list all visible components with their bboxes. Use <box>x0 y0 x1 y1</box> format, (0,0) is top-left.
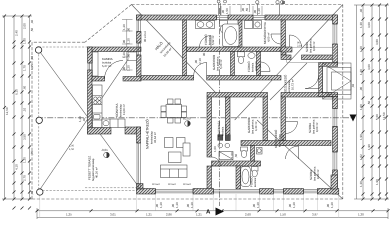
bottom dim numbers <box>66 213 364 217</box>
window halo west 2 <box>137 43 140 55</box>
node top A-line symbols <box>217 0 220 3</box>
wire north eaves <box>132 4 343 6</box>
wire NW hip diagonal <box>38 50 136 184</box>
wire right dim end bottom <box>354 198 389 200</box>
window north furdo1 <box>217 16 229 20</box>
wire NE hip diagonal <box>235 5 343 121</box>
svg-text:1,20: 1,20 <box>127 65 131 71</box>
svg-text:,90: ,90 <box>127 27 131 32</box>
svg-text:1,50: 1,50 <box>69 148 75 151</box>
table <box>166 105 182 118</box>
wire SE hip diagonal <box>257 120 343 199</box>
door kamra <box>105 61 124 80</box>
svg-text:5,20 m²: 5,20 m² <box>219 59 223 69</box>
column terrace SW <box>37 189 43 195</box>
svg-text:90 kwd: 90 kwd <box>183 183 191 186</box>
svg-text:2,86: 2,86 <box>166 213 172 217</box>
door furdo3 <box>241 166 250 175</box>
svg-text:5,60: 5,60 <box>375 114 379 120</box>
wall kamra konyha divider east <box>123 77 141 82</box>
chair right2 <box>182 112 187 118</box>
wire south eaves <box>32 198 343 200</box>
wire right dim line 1 <box>356 5 358 199</box>
svg-text:1,70: 1,70 <box>23 65 27 71</box>
svg-text:,40: ,40 <box>82 117 86 122</box>
node bubble 1 <box>256 1 259 4</box>
svg-text:kerámia: kerámia <box>254 177 257 187</box>
svg-text:SZOBA: SZOBA <box>305 42 309 52</box>
wire right dim end top <box>354 4 389 6</box>
wall furdo3 west pier <box>236 166 241 189</box>
svg-text:2,60: 2,60 <box>245 213 251 217</box>
svg-text:12,50: 12,50 <box>382 112 386 120</box>
svg-text:,60: ,60 <box>23 85 27 90</box>
wall se corner block <box>331 175 338 189</box>
wire bottom dim end left <box>36 208 38 219</box>
wire bubble stem <box>279 4 281 16</box>
wire right dim line 3 <box>371 5 373 199</box>
wall south furdo3 segment <box>260 189 274 195</box>
svg-text:11,00 m²: 11,00 m² <box>122 104 126 115</box>
node bubble 2 <box>276 1 279 4</box>
svg-text:3,01: 3,01 <box>110 213 116 217</box>
column terrace W mid <box>36 117 42 123</box>
wall porch inner <box>319 66 323 92</box>
wall halo east <box>183 20 187 76</box>
svg-text:,90: ,90 <box>359 86 363 91</box>
wire SW hip diagonal <box>38 47 136 192</box>
wc furdo2 <box>238 52 245 57</box>
window halo west 1 <box>137 20 140 32</box>
wall north east segment <box>265 15 338 20</box>
wall porch notch bottom <box>319 93 338 97</box>
axis bubbles top <box>217 0 284 15</box>
svg-text:,60: ,60 <box>234 153 238 158</box>
svg-text:FÜRDŐ: FÜRDŐ <box>250 176 254 187</box>
svg-text:,90: ,90 <box>127 53 131 58</box>
svg-text:1,30: 1,30 <box>359 181 363 187</box>
wire section A line <box>218 8 220 206</box>
wire north-wing hip diagonal <box>132 5 216 93</box>
svg-text:90 kwd: 90 kwd <box>168 183 176 186</box>
wall east upper a <box>333 15 338 24</box>
shower furdo3 <box>241 167 251 187</box>
svg-text:1,02: 1,02 <box>359 154 363 160</box>
wall east upper b <box>333 44 338 63</box>
svg-text:A: A <box>206 209 211 216</box>
wall south nappali east segment <box>193 189 214 195</box>
svg-text:1,20: 1,20 <box>122 52 126 58</box>
bottom dim ticks <box>36 209 390 212</box>
svg-text:1,20: 1,20 <box>330 202 334 208</box>
wall gardrob2 kozlekedo divider <box>263 97 268 141</box>
svg-text:9,00 m²: 9,00 m² <box>316 169 320 179</box>
level mark terasz <box>104 152 110 158</box>
svg-text:1,20: 1,20 <box>190 202 194 208</box>
steps outline <box>323 63 352 99</box>
sink bowl <box>94 115 101 120</box>
wall north mid segment <box>228 15 253 20</box>
svg-text:2,00: 2,00 <box>23 23 27 29</box>
svg-text:SZOBA: SZOBA <box>308 123 312 133</box>
svg-text:7,50 m²: 7,50 m² <box>224 124 228 134</box>
wire terrace west edge <box>38 47 40 192</box>
wire right dim line 4 <box>379 5 381 199</box>
node A arrow <box>216 208 225 216</box>
wire entry valley diagonal <box>270 63 307 100</box>
wall konyha south block <box>88 128 112 135</box>
chair left <box>161 106 166 112</box>
svg-text:1,20: 1,20 <box>122 24 126 30</box>
window nappali south <box>156 189 194 193</box>
svg-text:KÖZLEKEDŐ: KÖZLEKEDŐ <box>284 74 288 93</box>
wall kamra west <box>88 47 93 63</box>
wire top dim tick lines <box>220 6 222 15</box>
column terrace NW <box>35 47 41 53</box>
wall nappali kazanhaz divider upper <box>207 97 212 157</box>
wire east eaves <box>342 5 344 200</box>
svg-text:,90: ,90 <box>122 66 126 71</box>
door furdo1 <box>200 36 212 48</box>
svg-text:FÜRDŐ: FÜRDŐ <box>204 34 208 45</box>
wall below halo <box>141 76 194 81</box>
svg-text:1,00: 1,00 <box>359 104 363 110</box>
svg-text:3,00: 3,00 <box>367 22 371 28</box>
wall below szoba1 block <box>281 47 292 52</box>
chair left2 <box>161 112 166 118</box>
wire halo west mini chain <box>122 19 133 21</box>
wall porch notch top <box>319 63 338 67</box>
node bubble 3 <box>281 1 284 4</box>
chair top2 <box>175 99 181 104</box>
svg-text:4,00 m²: 4,00 m² <box>267 32 271 42</box>
section marker B right <box>350 115 357 122</box>
svg-text:40,26 m²: 40,26 m² <box>95 167 99 178</box>
svg-text:12,60: 12,60 <box>5 107 9 115</box>
wall east lower a <box>333 97 338 109</box>
svg-text:1,50: 1,50 <box>225 8 229 14</box>
wire section B line <box>37 117 352 119</box>
chair bottom1 <box>168 118 174 123</box>
wire right dim line 2 <box>362 5 364 199</box>
wall szoba1 west <box>281 20 286 55</box>
svg-text:,02: ,02 <box>351 83 355 88</box>
wc furdo3 <box>252 167 259 172</box>
wall kazanhaz row top <box>207 93 268 98</box>
wire west eaves <box>31 42 33 199</box>
wire left dim line 4 <box>29 16 31 199</box>
wire terrace inner south edge <box>85 187 137 189</box>
wall east lower b <box>333 127 338 153</box>
wall nappali west stub <box>137 127 141 143</box>
door dim labels above bottom chain <box>155 202 334 208</box>
wall halo west corner <box>137 15 142 20</box>
wall south szoba3 segment <box>284 189 304 195</box>
wire left dim end top <box>2 15 32 17</box>
svg-text:,55: ,55 <box>245 7 249 12</box>
svg-text:KONYHA: KONYHA <box>115 103 119 117</box>
sofa <box>161 165 188 178</box>
counter run <box>93 85 103 128</box>
wire bottom dim line 1 <box>37 210 388 212</box>
dryer <box>254 21 262 29</box>
door kazanhaz <box>212 157 221 166</box>
window kamra west <box>88 63 91 70</box>
svg-text:3,80: 3,80 <box>375 39 379 45</box>
basin furdo2 <box>248 53 255 59</box>
wall mid long below strip <box>207 76 281 81</box>
svg-text:1,90: 1,90 <box>23 38 27 44</box>
wall south east segment <box>317 189 338 195</box>
svg-text:FEDETT TERASZ: FEDETT TERASZ <box>88 156 92 180</box>
wall szoba2 west <box>281 97 286 146</box>
wall entry hall north west <box>281 55 291 60</box>
wall furdo3 top <box>212 161 261 166</box>
svg-text:90 kwd: 90 kwd <box>152 183 160 186</box>
right dim numbers <box>359 8 386 187</box>
window szoba3 south <box>273 189 283 193</box>
svg-text:SZOBA: SZOBA <box>309 170 313 180</box>
wire left dim line 2 <box>13 16 15 199</box>
svg-text:1,20: 1,20 <box>127 38 131 44</box>
svg-text:1,30: 1,30 <box>23 157 27 163</box>
svg-text:90: 90 <box>202 52 206 56</box>
svg-text:1,30: 1,30 <box>359 22 363 28</box>
wire left dim line 3 <box>21 16 23 199</box>
door furdo2 <box>261 62 271 72</box>
counter bottom run <box>102 119 125 128</box>
svg-text:GARDROB: GARDROB <box>247 118 251 133</box>
window south terrace door <box>214 189 260 193</box>
svg-text:9,00 m²: 9,00 m² <box>315 122 319 132</box>
canopy outline over entry <box>287 47 333 62</box>
wire bottom dim line 2 <box>37 216 388 218</box>
cabinet nappali <box>183 143 190 156</box>
washer <box>245 21 253 29</box>
svg-text:1,90: 1,90 <box>375 179 379 185</box>
svg-text:1,30: 1,30 <box>359 69 363 75</box>
wire right dim line 5 <box>386 5 388 199</box>
wall wc room divider <box>251 146 255 162</box>
window szoba1 east <box>333 24 337 44</box>
window north mosokonyha <box>253 16 265 20</box>
wall konyha west <box>88 70 93 134</box>
svg-text:9,00 m²: 9,00 m² <box>312 41 316 51</box>
door entry porch <box>305 75 319 89</box>
svg-text:2,70: 2,70 <box>23 175 27 181</box>
svg-text:2,40: 2,40 <box>15 30 19 36</box>
left dim numbers <box>5 19 34 195</box>
wire bottom dim end right <box>387 208 389 219</box>
svg-text:NAPPALI+ÉTKEZŐ: NAPPALI+ÉTKEZŐ <box>146 119 150 149</box>
wall gardrob strip top <box>187 47 282 52</box>
svg-text:1,21: 1,21 <box>196 213 202 217</box>
svg-text:1,20: 1,20 <box>256 202 260 208</box>
svg-text:5,27 m²: 5,27 m² <box>102 64 112 68</box>
svg-text:2,10: 2,10 <box>297 45 303 48</box>
washbasin double <box>196 21 215 29</box>
svg-text:1,90: 1,90 <box>359 134 363 140</box>
wall szoba2 top <box>281 93 333 98</box>
wc basin <box>257 148 263 155</box>
svg-text:,90: ,90 <box>122 39 126 44</box>
window szoba3 east <box>333 152 337 170</box>
wire terrace south edge <box>39 190 137 192</box>
svg-text:±0,00: ±0,00 <box>183 117 191 121</box>
svg-text:KÖZLEKEDŐ: KÖZLEKEDŐ <box>274 129 278 148</box>
svg-text:1,20: 1,20 <box>257 8 261 14</box>
wall furdo2 east <box>257 52 261 76</box>
svg-text:1,21: 1,21 <box>146 213 152 217</box>
svg-text:,90: ,90 <box>258 63 262 68</box>
svg-text:,40: ,40 <box>30 19 34 24</box>
level mark nappali <box>185 121 191 127</box>
svg-text:6,30 m²: 6,30 m² <box>254 121 258 131</box>
wall konyha south east block <box>125 127 141 134</box>
wall south sw notch <box>137 184 144 190</box>
door mosokonyha <box>271 34 281 44</box>
svg-text:1,20: 1,20 <box>359 46 363 52</box>
svg-text:1,30: 1,30 <box>358 213 364 217</box>
wall gardrob1 furdo2 divider <box>231 52 235 76</box>
node B arrow <box>350 115 357 122</box>
window nappali west glass <box>137 143 140 189</box>
wire left dim end bottom <box>2 198 32 200</box>
wc furdo1 <box>220 21 228 27</box>
svg-text:5,92 m²: 5,92 m² <box>211 35 215 45</box>
svg-text:KAZÁNHÁZ: KAZÁNHÁZ <box>217 121 221 137</box>
armchair 2 <box>177 138 186 148</box>
fridge kamra <box>128 52 137 61</box>
section marker A bottom <box>206 208 224 216</box>
wall east lower c <box>333 170 338 194</box>
svg-text:4,10: 4,10 <box>15 164 19 170</box>
right dim ticks <box>362 4 389 201</box>
wall nappali furdo3 divider lower <box>207 166 212 189</box>
armchair 1 <box>165 138 174 148</box>
wall furdo1 east <box>238 20 242 47</box>
svg-text:3,00: 3,00 <box>367 64 371 70</box>
svg-text:33,64 m²: 33,64 m² <box>153 132 157 143</box>
wall halo west pier2 <box>137 55 142 80</box>
svg-text:,40: ,40 <box>359 8 363 13</box>
left dim ticks <box>3 15 31 210</box>
wall entry hall north east <box>302 55 334 60</box>
svg-text:1,90: 1,90 <box>367 144 371 150</box>
window szoba3b south <box>304 189 318 193</box>
door szoba1 <box>290 35 302 47</box>
boiler equipment <box>218 135 233 160</box>
hob burners <box>94 97 97 100</box>
wire terrace top edge <box>39 46 88 48</box>
door gardrob1 <box>194 63 207 76</box>
svg-text:1,20: 1,20 <box>175 202 179 208</box>
svg-text:90 el.tol.: 90 el.tol. <box>143 30 147 42</box>
svg-text:,50: ,50 <box>367 100 371 105</box>
svg-text:1,20: 1,20 <box>159 202 163 208</box>
door szoba2 <box>286 122 298 134</box>
wire left dim line 1 <box>4 16 6 199</box>
chair right <box>182 106 187 112</box>
svg-text:3,50: 3,50 <box>23 134 27 140</box>
svg-text:1,25: 1,25 <box>66 213 72 217</box>
wall halo west pier1 <box>137 32 142 44</box>
svg-text:3,97: 3,97 <box>312 213 318 217</box>
wall north west segment <box>137 15 217 20</box>
wall south pier sw <box>137 189 156 195</box>
svg-text:KAMRA: KAMRA <box>102 57 113 61</box>
wall kamra top <box>88 47 142 52</box>
bathtub furdo1 <box>223 24 240 47</box>
wall kamra konyha divider <box>92 77 105 82</box>
wall kazanhaz gardrob2 divider <box>226 97 231 141</box>
wire NW step diagonal <box>85 5 132 43</box>
chair bottom2 <box>175 118 181 123</box>
svg-text:GARDROB: GARDROB <box>212 55 216 70</box>
svg-text:10,72 m²: 10,72 m² <box>291 79 295 90</box>
svg-text:1,50: 1,50 <box>280 213 286 217</box>
svg-text:1,20: 1,20 <box>292 202 296 208</box>
svg-text:1,00: 1,00 <box>213 146 217 152</box>
svg-text:-0,01: -0,01 <box>101 148 108 152</box>
svg-text:6,10: 6,10 <box>15 89 19 95</box>
extension lines bottom <box>40 194 339 217</box>
wc toilet <box>241 147 263 158</box>
window szoba2 east <box>333 109 337 127</box>
shelf kamra <box>93 52 99 76</box>
steps diagonals <box>323 63 352 81</box>
door szoba3 <box>286 146 299 159</box>
wall szoba2 szoba3 divider <box>241 141 331 146</box>
svg-text:,50: ,50 <box>30 27 34 32</box>
svg-text:7,32 m²: 7,32 m² <box>281 134 285 144</box>
svg-text:2,10: 2,10 <box>198 58 202 64</box>
chair top1 <box>168 99 174 104</box>
coffee table <box>169 152 182 163</box>
svg-text:FÜRDŐ: FÜRDŐ <box>247 61 251 72</box>
svg-text:,10: ,10 <box>23 107 27 112</box>
wire kamra north eaves <box>32 41 85 43</box>
